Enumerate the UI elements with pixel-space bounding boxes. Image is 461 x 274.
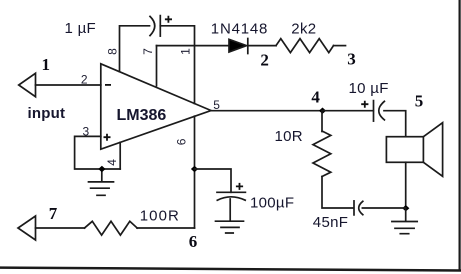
C2 plus sign: [361, 101, 368, 108]
node dot 6: [191, 166, 198, 172]
wire input to pin2: [36, 84, 101, 86]
capacitor C2 10uF curved plate: [379, 101, 385, 120]
svg-text:5: 5: [415, 92, 424, 111]
svg-text:3: 3: [347, 49, 356, 68]
svg-text:10 µF: 10 µF: [349, 80, 389, 97]
wire pin4: [119, 142, 121, 169]
svg-text:LM386: LM386: [117, 107, 167, 124]
wire pin7 up: [156, 46, 158, 86]
diode D1 cathode bar: [247, 39, 249, 54]
wire R3 to terminal 7: [36, 227, 85, 229]
terminal input 1: [19, 73, 36, 96]
wire ground stem speaker: [405, 208, 407, 221]
wire C3 to ground: [229, 199, 231, 221]
svg-text:100R: 100R: [140, 208, 180, 225]
svg-text:1N4148: 1N4148: [211, 21, 268, 38]
wire diode to R1: [249, 45, 277, 47]
C3 plus sign: [236, 183, 243, 190]
node dot speaker/ground: [402, 205, 409, 211]
ground under op-amp: [89, 182, 114, 195]
svg-text:7: 7: [141, 48, 155, 55]
wire ground stem pin4: [101, 169, 103, 181]
capacitor C4 45nF straight plate: [353, 201, 355, 215]
svg-text:7: 7: [49, 204, 58, 223]
node dot 4: [319, 108, 326, 114]
speaker LS1 horn: [423, 123, 442, 177]
resistor R2 10R: [313, 131, 331, 177]
svg-text:6: 6: [174, 138, 188, 145]
svg-text:8: 8: [105, 48, 119, 55]
speaker LS1 box: [386, 137, 423, 163]
wire R1 to node 3: [334, 45, 346, 47]
svg-text:4: 4: [311, 87, 320, 106]
capacitor C4 45nF curved plate: [359, 201, 363, 214]
ground under C3: [216, 221, 244, 233]
resistor R1 2k2: [276, 39, 334, 53]
op-amp plus sign: [104, 134, 111, 141]
capacitor C1 1uF straight plate: [159, 16, 161, 36]
wire C2 to speaker: [384, 111, 406, 137]
wire pin6 down: [194, 116, 196, 228]
op-amp U1 LM386: [101, 64, 211, 149]
wire pin6 bottom to R3: [137, 227, 195, 229]
svg-text:1 µF: 1 µF: [65, 20, 97, 37]
wire pin3: [75, 136, 121, 169]
node dot pin4/ground: [98, 166, 105, 172]
svg-text:2: 2: [260, 50, 269, 69]
svg-text:1: 1: [179, 48, 193, 55]
svg-text:4: 4: [105, 159, 119, 166]
C1 plus sign: [165, 16, 172, 23]
svg-text:2k2: 2k2: [291, 21, 316, 38]
svg-text:100µF: 100µF: [250, 194, 294, 211]
diode D1 1N4148: [229, 39, 247, 52]
wire node4 to C2: [323, 110, 374, 112]
svg-text:6: 6: [189, 232, 198, 251]
border right line: [459, 0, 461, 270]
ground under speaker: [392, 222, 417, 234]
wire speaker to ground: [405, 162, 407, 208]
capacitor C3 100uF straight plate: [217, 191, 245, 193]
capacitor C2 10uF straight plate: [373, 101, 375, 122]
svg-text:10R: 10R: [275, 128, 303, 145]
wire output pin5 to node 4: [211, 110, 323, 112]
capacitor C3 100uF curved plate: [217, 197, 245, 200]
svg-text:input: input: [28, 105, 66, 122]
wire pin8 up: [120, 26, 150, 72]
border bottom line: [0, 268, 460, 271]
svg-text:45nF: 45nF: [313, 214, 348, 231]
svg-text:2: 2: [81, 72, 88, 86]
wire node4 down to R2: [321, 111, 323, 132]
svg-text:5: 5: [213, 98, 220, 112]
terminal 7: [18, 216, 36, 240]
svg-text:3: 3: [83, 125, 90, 139]
wire pin7 to diode: [157, 45, 230, 47]
wire C4 to speaker ground node: [362, 207, 405, 209]
op-amp minus sign: [105, 84, 111, 86]
svg-text:1: 1: [42, 55, 51, 74]
capacitor C1 1uF curved plate: [150, 16, 155, 35]
wire node6 to C3: [195, 169, 232, 192]
wire cap to pin1: [160, 26, 194, 104]
wire R2 to C4: [322, 177, 353, 209]
resistor R3 100R: [85, 221, 138, 235]
